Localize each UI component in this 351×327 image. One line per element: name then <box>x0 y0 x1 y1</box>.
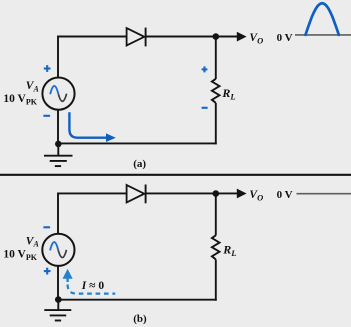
wire: (a) left vertical from source to top <box>57 37 59 78</box>
node: (a) output node junction dot <box>213 33 220 40</box>
separator line <box>0 174 351 176</box>
svg-text:I ≈ 0: I ≈ 0 <box>81 280 105 292</box>
arrow to Vo (a) <box>237 32 247 42</box>
arrow to Vo (b) <box>237 189 247 199</box>
wire: (b) right vertical above resistor <box>215 194 217 236</box>
source VA (b): circle with sine <box>42 234 74 266</box>
current arrow (b): dashed blue arrow, I = 0 <box>63 269 116 294</box>
ground (a) <box>44 144 73 166</box>
svg-text:(b): (b) <box>133 313 147 325</box>
resistor RL (a) <box>212 79 220 103</box>
minus mark below RL (a) <box>202 107 208 109</box>
node: (b) output node junction dot <box>213 190 220 197</box>
svg-text:0 V: 0 V <box>277 32 293 44</box>
minus mark at source top (b) <box>43 226 50 228</box>
plus mark at source top (a) <box>44 65 51 72</box>
wire: (a) diode cathode to output node <box>146 36 238 38</box>
wire: (a) right vertical below resistor <box>215 103 217 144</box>
plus mark above RL (a) <box>202 66 208 72</box>
wire: (b) left vertical from source bottom to ground node <box>57 266 59 301</box>
waveform flat line (b) <box>297 193 351 195</box>
node: (a) ground junction dot <box>55 141 62 148</box>
svg-text:0 V: 0 V <box>277 189 293 201</box>
minus mark at source bottom (a) <box>43 115 50 117</box>
resistor RL (b) <box>212 235 220 259</box>
wire: (a) left vertical from source bottom to ground node <box>57 110 59 145</box>
current arrow (a): blue curved arrow <box>69 112 115 142</box>
wire: (a) top horizontal from corner to diode anode <box>57 36 127 38</box>
wire: (b) right vertical below resistor <box>215 259 217 300</box>
ground (b) <box>44 300 71 321</box>
wire: (a) right vertical above resistor <box>215 37 217 79</box>
diode D (a) <box>127 28 146 47</box>
svg-text:(a): (a) <box>133 158 146 170</box>
diode D (b) <box>127 185 146 204</box>
wire: (b) diode cathode to output node <box>146 192 238 194</box>
waveform: positive half-sine pulse (a) <box>306 3 339 35</box>
plus mark at source bottom (b) <box>44 268 51 275</box>
wire: (b) left vertical from source to top <box>57 193 59 234</box>
node: (b) ground junction dot <box>55 296 62 303</box>
source VA (a): circle with sine <box>42 78 74 110</box>
wire: (b) top horizontal from corner to diode anode <box>57 192 127 194</box>
wire: (b) bottom horizontal <box>58 299 217 301</box>
waveform baseline (a) <box>295 34 351 36</box>
wire: (a) bottom horizontal <box>58 142 217 144</box>
